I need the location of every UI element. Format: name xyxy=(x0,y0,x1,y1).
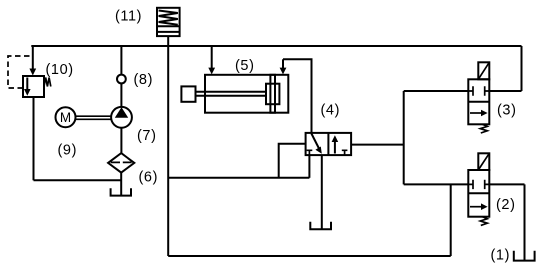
wire: riser to valve (2) supply xyxy=(450,184,452,256)
shaft between motor and pump xyxy=(76,116,112,119)
svg-text:(10): (10) xyxy=(46,62,74,78)
valve U4 divider xyxy=(327,133,329,155)
cylinder (5) piston xyxy=(270,75,275,113)
gauge point circle (8) xyxy=(117,75,126,84)
valve U4 right box blocked port T xyxy=(342,150,348,155)
wire: top pressure bus xyxy=(31,45,521,47)
valve U4 body xyxy=(306,133,352,155)
wire: valve (2) right port to tank (1) xyxy=(489,184,524,260)
wire: arrow into cylinder rod end xyxy=(282,59,284,69)
valve U2 body xyxy=(468,170,489,217)
wire: circle (8) to top bus xyxy=(120,46,122,75)
svg-text:M: M xyxy=(60,110,71,125)
cylinder (5) rod xyxy=(196,92,267,96)
valve U4 left box blocked port T xyxy=(307,150,313,155)
wire: arrow from bus into cylinder cap end xyxy=(211,47,213,70)
valve U4 left box diagonal arrow xyxy=(311,134,319,149)
relief valve (10) body xyxy=(23,76,44,97)
cylinder (5) cushion block xyxy=(266,84,279,105)
wire: riser to valve (4) left port xyxy=(279,144,306,178)
tank under filter xyxy=(111,188,131,195)
valve U2 bottom box flow arrow xyxy=(470,206,484,208)
svg-text:(3): (3) xyxy=(497,102,517,118)
svg-text:(9): (9) xyxy=(58,143,78,159)
svg-text:(5): (5) xyxy=(235,58,255,74)
tank under valve (4) xyxy=(310,222,331,229)
arrowhead into relief valve (10) xyxy=(29,69,36,76)
wire: node vertical between valves (3) and (2) xyxy=(403,91,405,184)
wire: pump suction down to filter xyxy=(120,128,122,154)
accumulator (11) body xyxy=(157,8,180,36)
wire: valve (3) right port to top bus xyxy=(489,46,521,91)
pump (7) xyxy=(111,107,132,128)
valve U4 right box up arrow xyxy=(334,140,336,154)
wire: to valve (3) left port xyxy=(404,90,469,92)
valve U2 top box blocked ports xyxy=(468,180,489,189)
wire: accumulator stem xyxy=(167,36,169,46)
valve U3 bottom box flow arrow xyxy=(470,112,484,114)
valve U2 solenoid diagonal xyxy=(478,153,489,170)
wire: filter to tank xyxy=(120,173,122,196)
valve U2 divider xyxy=(468,192,489,194)
svg-text:(8): (8) xyxy=(134,72,154,88)
valve U3 divider xyxy=(468,101,489,103)
accumulator (11) spring xyxy=(159,11,178,25)
filter (6) diamond xyxy=(108,153,134,173)
valve U3 spring xyxy=(480,124,487,133)
wire: valve (4) tank line xyxy=(321,155,323,229)
wire: bottom return bus xyxy=(168,255,451,257)
relief valve (10) pilot line (dashed) xyxy=(8,56,31,88)
motor M (9) xyxy=(56,107,76,127)
valve U3 solenoid diagonal xyxy=(478,62,489,79)
valve U2 spring xyxy=(480,217,487,226)
svg-text:(2): (2) xyxy=(496,197,516,213)
svg-text:(1): (1) xyxy=(491,248,511,264)
cylinder (5) barrel xyxy=(205,75,288,113)
valve U3 body xyxy=(468,79,489,124)
tank (1) xyxy=(514,251,535,261)
wire: stub to valve (4) bottom port xyxy=(308,155,310,178)
wire: to valve (2) left port xyxy=(404,183,469,185)
cylinder (5) end block xyxy=(181,86,195,101)
svg-text:(11): (11) xyxy=(115,9,142,25)
svg-text:(4): (4) xyxy=(321,103,341,119)
svg-text:(6): (6) xyxy=(139,170,159,186)
wire: drain to tank xyxy=(34,179,121,181)
valve U2 solenoid xyxy=(478,153,489,170)
wire: drop from bus to relief valve (10) xyxy=(32,46,34,70)
relief valve (10) spring xyxy=(44,78,51,87)
wire: supply branch to valve (4) xyxy=(168,177,309,179)
wire: relief valve drain down xyxy=(33,97,35,180)
valve U3 top box blocked ports xyxy=(468,86,489,95)
pump (7) triangle xyxy=(115,107,128,117)
relief valve (10) internal flow arrow xyxy=(26,78,28,91)
filter (6) dashed element xyxy=(111,161,132,163)
wire: valve (4) right port to node xyxy=(351,144,404,146)
svg-text:(7): (7) xyxy=(137,128,157,144)
wire: main left drop xyxy=(167,46,169,256)
wire: pump outlet up xyxy=(120,83,122,107)
valve U3 solenoid xyxy=(478,62,489,79)
accumulator (11) separator lines xyxy=(157,26,180,32)
wire: valve (4) top port riser xyxy=(283,59,312,133)
